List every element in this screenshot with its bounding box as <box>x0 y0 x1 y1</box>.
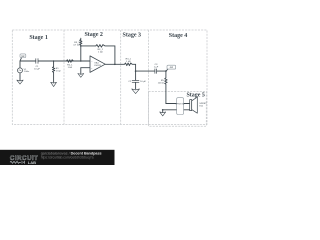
svg-text:htps:/circuitlab.com/ce6dh3S6u: htps:/circuitlab.com/ce6dh3S6uq7a <box>41 155 94 159</box>
svg-text:1 kΩ: 1 kΩ <box>98 52 103 54</box>
svg-text:Stage 4: Stage 4 <box>169 33 188 39</box>
svg-text:4.7 kΩ: 4.7 kΩ <box>73 45 80 47</box>
svg-text:10 µF: 10 µF <box>34 69 40 71</box>
svg-text:LAB: LAB <box>28 160 36 165</box>
svg-text:Stage 1: Stage 1 <box>29 35 48 41</box>
svg-text:LM741: LM741 <box>94 65 101 67</box>
svg-text:Stage 3: Stage 3 <box>123 32 142 38</box>
svg-text:1 kHz: 1 kHz <box>24 71 30 73</box>
svg-text:1 kΩ: 1 kΩ <box>68 67 73 69</box>
svg-text:10 µF: 10 µF <box>140 81 146 83</box>
svg-text:8 Ω: 8 Ω <box>199 106 203 108</box>
svg-text:1 kΩ: 1 kΩ <box>126 61 131 63</box>
svg-text:100 Ω: 100 Ω <box>158 82 164 84</box>
svg-text:1 µF: 1 µF <box>154 67 159 69</box>
svg-text:Stage 5: Stage 5 <box>186 93 205 99</box>
svg-text:OA1: OA1 <box>94 61 99 64</box>
svg-text:Stage 2: Stage 2 <box>84 32 103 38</box>
svg-text:SPKR 8Ω: SPKR 8Ω <box>175 103 184 105</box>
svg-text:out: out <box>170 66 174 69</box>
svg-text:1 kΩ: 1 kΩ <box>56 71 61 73</box>
